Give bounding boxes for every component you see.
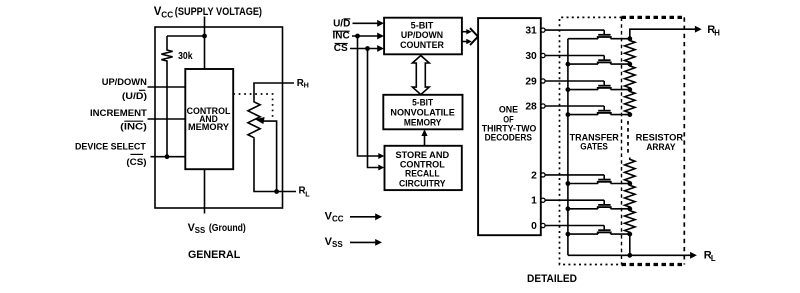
wire VSS stub below box	[204, 169, 206, 213]
wire DEVICE SELECT input	[151, 156, 186, 158]
wire U/D into counter	[353, 22, 379, 24]
outer device box (GENERAL)	[155, 27, 283, 208]
svg-text:L: L	[711, 254, 716, 263]
svg-text:GATES: GATES	[580, 141, 608, 152]
decoder output 30 bubble	[541, 53, 545, 57]
dotted control line to wiper	[233, 94, 272, 118]
wire Q28 drain to resistor chain	[611, 114, 630, 116]
wire decoder output 31 to gate	[545, 29, 604, 31]
svg-text:SS: SS	[332, 240, 343, 249]
svg-text:MEMORY: MEMORY	[188, 122, 230, 133]
wire RH output	[630, 29, 696, 39]
wire Q1 drain to resistor chain	[611, 208, 630, 210]
resistor array element R1	[625, 39, 635, 64]
transistor Q1 transfer gate	[597, 205, 612, 209]
node wiper-RL junction dot	[274, 189, 279, 194]
wire Q30 drain to resistor chain	[611, 63, 630, 65]
node tap 0 junction dot	[627, 232, 632, 237]
wire wiper bus vertical	[567, 39, 569, 256]
decoder output 31 bubble	[541, 28, 545, 32]
wire decoder output 2 to gate	[545, 174, 604, 176]
svg-text:30k: 30k	[178, 51, 193, 62]
decoder output 0 bubble	[541, 223, 545, 227]
svg-text:(U/D): (U/D)	[122, 91, 147, 102]
svg-text:L: L	[305, 189, 310, 198]
node CS pull-up junction dot	[165, 154, 170, 159]
node bus junction dot tap 28	[566, 112, 571, 117]
svg-text:COUNTER: COUNTER	[400, 40, 444, 51]
wire INC drop to store circuitry	[358, 36, 379, 156]
wire Q29 source to wiper bus	[568, 89, 598, 91]
control and memory block	[185, 69, 233, 169]
svg-text:UP/DOWN: UP/DOWN	[102, 77, 147, 88]
svg-text:2: 2	[531, 170, 537, 181]
resistor array element R3	[625, 90, 635, 115]
transistor Q30 transfer gate	[597, 60, 612, 64]
wire Q31 source to wiper bus	[568, 38, 598, 40]
potentiometer element resistor	[248, 101, 260, 139]
svg-text:DETAILED: DETAILED	[527, 273, 577, 285]
svg-text:DEVICE SELECT: DEVICE SELECT	[75, 142, 146, 153]
wiper arm with arrowhead	[263, 121, 277, 191]
svg-text:INCREMENT: INCREMENT	[90, 108, 147, 119]
node VCC label (detailed)	[325, 210, 344, 223]
decoder output 29 bubble	[541, 79, 545, 83]
node bus junction dot tap 29	[566, 87, 571, 92]
node bus junction dot tap 1	[566, 206, 571, 211]
svg-text:28: 28	[525, 101, 537, 112]
node bus junction dot tap 0	[566, 232, 571, 237]
dashed box resistor array	[622, 16, 685, 19]
svg-text:29: 29	[525, 76, 537, 87]
wire decoder output 0 to gate	[545, 225, 604, 227]
svg-text:H: H	[304, 81, 309, 90]
node bus junction dot tap 30	[566, 62, 571, 67]
wire decoder output 29 to gate	[545, 80, 604, 82]
wire Q29 drain to resistor chain	[611, 89, 630, 91]
wire resistor bottom to CS line	[166, 63, 168, 157]
node CS junction dot	[365, 46, 370, 51]
svg-text:1: 1	[531, 196, 537, 207]
dashed box transfer gates	[560, 17, 622, 264]
svg-text:INC: INC	[332, 31, 349, 42]
wire Q0 source to wiper bus	[568, 233, 598, 235]
node INC junction dot	[355, 34, 360, 39]
node tap 29 junction dot	[627, 87, 632, 92]
transistor Q31 transfer gate	[597, 35, 612, 39]
block 5-bit up/down counter U1	[384, 18, 462, 55]
svg-text:SS: SS	[195, 226, 205, 235]
wire CS into counter	[350, 48, 379, 50]
svg-text:(INC): (INC)	[120, 122, 147, 133]
transistor Q29 transfer gate	[597, 86, 612, 90]
resistor R1 30k pull-up	[161, 49, 172, 63]
node tap 31 junction dot	[627, 36, 632, 41]
wire chain bottom lead	[629, 234, 631, 255]
wire branch VCC to pull-up resistor	[167, 35, 205, 37]
arrow store circuitry to memory	[424, 133, 426, 146]
svg-text:(Ground): (Ground)	[209, 223, 246, 234]
node VCC junction dot	[202, 34, 207, 39]
wire decoder output 28 to gate	[545, 105, 604, 107]
svg-text:DECODERS: DECODERS	[485, 132, 532, 142]
svg-text:0: 0	[531, 221, 537, 232]
wire UP/DOWN input	[148, 86, 186, 88]
decoder output 1 bubble	[541, 198, 545, 202]
wire pot bottom to RL	[254, 139, 296, 192]
svg-text:ONE: ONE	[499, 105, 518, 115]
wire VSS arrow	[350, 241, 376, 243]
node bus junction dot tap 2	[566, 181, 571, 186]
wire RL output	[568, 254, 691, 256]
node tap 2 junction dot	[627, 181, 632, 186]
svg-text:31: 31	[525, 26, 537, 37]
wire INC into counter	[352, 35, 379, 37]
resistor array element R2	[625, 64, 635, 90]
wire VCC arrow	[350, 216, 376, 218]
node RH label (detailed)	[707, 24, 720, 37]
svg-text:GENERAL: GENERAL	[188, 249, 241, 261]
resistor chain continuation (dashed)	[627, 121, 629, 156]
wire Q30 source to wiper bus	[568, 63, 598, 65]
resistor array element R5	[625, 184, 635, 209]
svg-text:CS: CS	[334, 43, 348, 54]
svg-text:ARRAY: ARRAY	[646, 142, 676, 153]
wire Q2 source to wiper bus	[568, 183, 598, 185]
double arrow counter to nonvolatile memory	[412, 56, 429, 95]
node RL label (detailed)	[704, 249, 716, 263]
wire CS drop to store circuitry	[368, 49, 379, 168]
wire Q31 drain to resistor chain	[611, 38, 630, 40]
node tap 28 junction dot	[627, 112, 632, 117]
svg-text:H: H	[714, 28, 720, 37]
svg-text:CIRCUITRY: CIRCUITRY	[399, 179, 446, 190]
svg-text:30: 30	[525, 51, 537, 62]
transistor Q0 transfer gate	[597, 230, 612, 234]
node VCC supply label	[154, 6, 263, 19]
svg-text:MEMORY: MEMORY	[404, 117, 442, 128]
node tap 30 junction dot	[627, 62, 632, 67]
wire decoder output 1 to gate	[545, 199, 604, 201]
node VSS ground label	[188, 222, 246, 235]
svg-text:(CS): (CS)	[126, 157, 146, 168]
wire Q0 drain to resistor chain	[611, 233, 630, 235]
svg-text:CC: CC	[332, 215, 344, 224]
block store and control recall circuitry U3	[385, 146, 462, 190]
block one of thirty-two decoders U4	[478, 18, 541, 235]
node tap 1 junction dot	[627, 206, 632, 211]
wire RH tap (general)	[254, 83, 294, 101]
svg-text:CC: CC	[161, 10, 173, 19]
node RH label (general)	[297, 78, 309, 90]
decoder output 2 bubble	[541, 173, 545, 177]
svg-text:U/D: U/D	[333, 18, 350, 29]
node RL line junction dot	[627, 253, 632, 258]
transistor Q28 transfer gate	[597, 111, 612, 115]
node VSS label (detailed)	[325, 236, 344, 249]
wire Q1 source to wiper bus	[568, 208, 598, 210]
decoder output 28 bubble	[541, 104, 545, 108]
node RL label (general)	[299, 185, 311, 198]
wire INCREMENT input	[148, 118, 186, 120]
wire VCC vertical into outer box	[204, 17, 206, 70]
transistor Q2 transfer gate	[597, 180, 612, 184]
wire Q2 drain to resistor chain	[611, 183, 630, 185]
bus arrow counter to decoder	[462, 31, 469, 33]
svg-text:(SUPPLY VOLTAGE): (SUPPLY VOLTAGE)	[175, 6, 262, 18]
wire Q28 source to wiper bus	[568, 114, 598, 116]
wire decoder output 30 to gate	[545, 55, 604, 57]
block 5-bit nonvolatile memory U2	[383, 95, 462, 130]
resistor array element R4	[625, 158, 635, 184]
resistor array element R6	[625, 209, 635, 234]
